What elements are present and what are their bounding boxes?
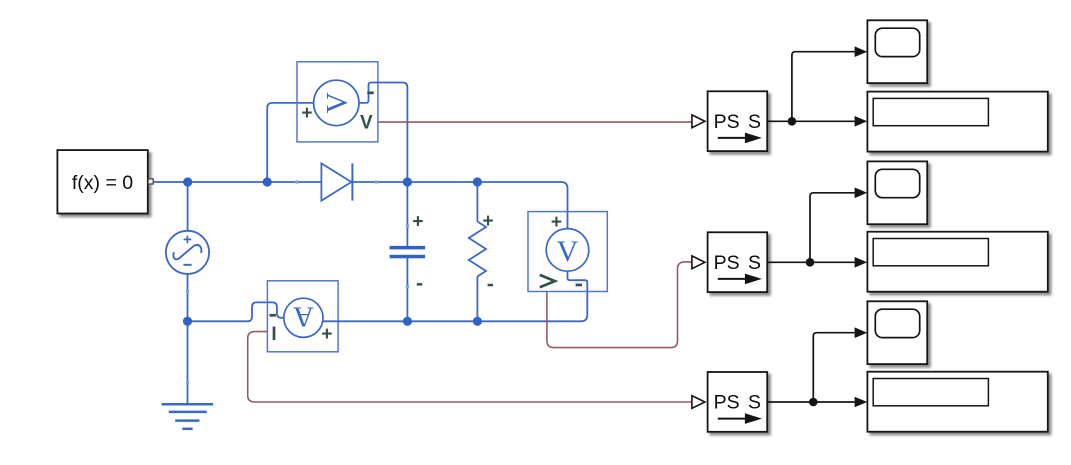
wire node E to current sensor U3 minus	[188, 302, 285, 321]
svg-text:I: I	[271, 324, 276, 345]
node D junction dot	[473, 177, 482, 186]
AC source V1 circle	[166, 231, 209, 274]
arrowhead into scope 1	[855, 46, 868, 57]
label U3 minus	[270, 314, 276, 317]
current sensor U3 box	[267, 281, 338, 352]
voltmeter U4 circle	[546, 229, 589, 272]
PS-S converter 2 box	[708, 232, 768, 292]
svg-text:f(x) = 0: f(x) = 0	[72, 172, 133, 194]
AC source V1 port nub	[186, 290, 189, 293]
junction dot group 1	[788, 117, 797, 126]
wire node B branch up to voltage sensor U2 plus	[267, 103, 314, 182]
svg-text:A: A	[293, 300, 314, 332]
svg-text:S: S	[748, 111, 761, 133]
label U4 PS output arrow	[540, 275, 555, 287]
PS-S converter 1 input triangle	[692, 115, 705, 128]
node E junction dot	[183, 317, 192, 326]
wire diode cathode to node C	[353, 181, 408, 183]
svg-text:+: +	[321, 324, 332, 345]
voltmeter U4 box	[528, 212, 607, 292]
resistor R1 bottom lead	[476, 277, 478, 322]
svg-text:S: S	[748, 392, 761, 414]
capacitor C1 top lead	[406, 182, 408, 246]
svg-text:PS: PS	[714, 252, 740, 274]
junction dot group 3	[809, 398, 818, 407]
wire U2 minus internal step to node C	[359, 83, 407, 183]
wire U3 plus to node F	[323, 320, 408, 322]
resistor R1 zigzag	[469, 222, 486, 277]
svg-text:V: V	[322, 92, 354, 113]
scope 1 block	[867, 20, 927, 83]
svg-text:PS: PS	[714, 392, 740, 414]
node F junction dot	[403, 317, 412, 326]
wire node E down to ground	[187, 321, 189, 404]
AC source V1 minus	[183, 264, 191, 266]
PS-S converter 2 input triangle	[692, 256, 705, 269]
junction dot group 2	[806, 258, 815, 267]
node C junction dot	[403, 177, 412, 186]
svg-text:PS: PS	[714, 111, 740, 133]
scope 3 block	[867, 301, 927, 364]
capacitor C1 plates	[390, 246, 426, 250]
wire PS-S 2 output to display 2	[767, 261, 855, 263]
voltage sensor U2 box	[297, 62, 378, 142]
node A junction dot	[183, 177, 192, 186]
arrowhead into scope 2	[855, 188, 868, 199]
voltage sensor U2 circle	[314, 80, 359, 125]
arrowhead into scope 3	[855, 327, 868, 338]
display 2 block	[867, 232, 1047, 292]
svg-text:+: +	[301, 103, 312, 124]
wire AC source V1 to node E	[187, 274, 189, 321]
ground port nub	[186, 381, 189, 384]
PS-S converter 3 box	[708, 372, 768, 432]
arrowhead into display 2	[855, 257, 868, 268]
diode D1 port nub left	[295, 180, 298, 183]
solver port nub	[148, 179, 153, 184]
wire top rail node A to diode anode	[188, 181, 322, 183]
arrowhead into display 1	[855, 116, 868, 127]
wire branch up to scope 1	[792, 52, 855, 122]
svg-text:+: +	[483, 211, 494, 232]
diode D1 port nub right	[375, 180, 378, 183]
ground G1	[162, 404, 214, 429]
display 1 block	[867, 92, 1047, 152]
wire bottom rail node F to node G to V-sensor bottom	[407, 271, 587, 321]
PS line U4 to PS-S converter 2	[547, 262, 692, 348]
svg-text:V: V	[360, 113, 373, 134]
wire branch up to scope 3	[813, 333, 855, 402]
node B junction dot	[263, 177, 272, 186]
wire node C to node D to V-sensor top	[407, 182, 567, 229]
scope 2 block	[867, 161, 927, 224]
svg-text:+: +	[412, 212, 423, 233]
label U4 minus	[576, 284, 582, 287]
solver block U1 f(x)=0	[57, 150, 147, 213]
PS-S converter 3 input triangle	[692, 396, 705, 409]
AC source V1 plus	[184, 236, 192, 244]
wire node A down to AC source V1	[187, 182, 189, 231]
resistor R1 top lead	[476, 182, 478, 222]
PS line U3 I to PS-S converter 3	[248, 332, 692, 402]
AC source V1 sine wave	[173, 245, 201, 259]
svg-text:+: +	[551, 212, 562, 233]
capacitor C1 port nub top	[406, 224, 409, 227]
PS-S converter 1 box	[708, 91, 768, 151]
capacitor C1 bottom lead	[406, 258, 408, 321]
label U2 minus	[367, 92, 373, 95]
svg-text:S: S	[748, 252, 761, 274]
label R1 minus	[488, 284, 493, 287]
label C1 minus	[417, 283, 422, 286]
PS line U2 V to PS-S converter 1	[378, 121, 692, 123]
wire PS-S 3 output to display 3	[767, 401, 855, 403]
current sensor U3 circle	[284, 298, 323, 337]
arrowhead into display 3	[855, 397, 868, 408]
display 3 block	[867, 372, 1047, 432]
svg-text:V: V	[557, 235, 579, 268]
wire solver to node A	[153, 181, 187, 183]
wire branch up to scope 2	[810, 193, 855, 262]
wire PS-S 1 output to display 1	[767, 120, 855, 122]
diode D1 cathode bar	[351, 163, 353, 200]
node G junction dot	[473, 317, 482, 326]
diode D1 triangle	[321, 163, 351, 200]
capacitor C1 port nub bottom	[406, 285, 409, 288]
